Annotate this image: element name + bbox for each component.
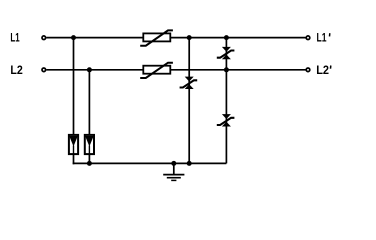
wire GDT F2 stub down bbox=[88, 154, 90, 163]
gas discharge tube F2 bbox=[85, 135, 94, 154]
terminal L2 bbox=[42, 68, 46, 72]
wire L1 row right bbox=[171, 37, 306, 39]
svg-text:L1: L1 bbox=[317, 31, 327, 45]
svg-text:L2: L2 bbox=[316, 63, 329, 77]
junction node bus/ground bbox=[171, 161, 176, 166]
varistor RV1 bbox=[140, 30, 173, 45]
terminal L1 bbox=[42, 36, 46, 40]
gas discharge tube F1 bbox=[69, 135, 78, 154]
wire ground bus bbox=[73, 162, 227, 164]
label L1' bbox=[317, 31, 330, 45]
TVS suppressor D3 (mid column) bbox=[180, 77, 198, 89]
TVS suppressor D1 (L1 to L2 column) bbox=[217, 47, 235, 59]
junction node L1/mid column bbox=[187, 35, 192, 40]
junction node bus/GDT F2 bbox=[87, 161, 92, 166]
junction node L2/right column bbox=[224, 67, 229, 72]
wire L2 row left bbox=[46, 69, 143, 71]
svg-text:L1: L1 bbox=[10, 31, 19, 45]
TVS suppressor D2 (right column lower) bbox=[217, 114, 235, 126]
junction node L1/right column bbox=[224, 35, 229, 40]
wire vertical from L2 to GDT F2 bbox=[88, 70, 90, 136]
ground bbox=[163, 163, 184, 180]
junction node L2/vertical2 bbox=[87, 67, 92, 72]
svg-text:L2: L2 bbox=[10, 63, 23, 77]
wire vertical from L1 to GDT F1 bbox=[73, 38, 75, 136]
junction node L1/vertical1 bbox=[71, 35, 76, 40]
wire L1 row left bbox=[46, 37, 143, 39]
label L2' bbox=[316, 63, 331, 77]
wire vertical right (L1 to ground bus) bbox=[225, 38, 227, 164]
wire GDT F1 stub down bbox=[73, 154, 75, 164]
terminal L2' bbox=[306, 68, 310, 72]
varistor RV2 bbox=[140, 63, 173, 78]
terminal L1' bbox=[306, 36, 310, 40]
junction node bus/mid column bbox=[187, 161, 192, 166]
wire vertical mid (L1 to ground bus) bbox=[188, 38, 190, 164]
wire L2 row right bbox=[171, 69, 306, 71]
